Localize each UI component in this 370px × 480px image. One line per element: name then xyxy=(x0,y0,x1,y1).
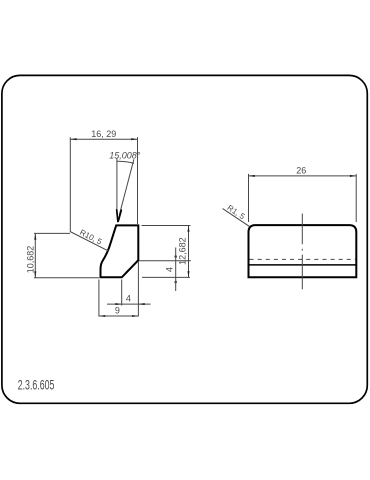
dim 16,29 left extension line xyxy=(69,137,71,231)
svg-text:R10, 5: R10, 5 xyxy=(78,228,104,247)
svg-text:16, 29: 16, 29 xyxy=(91,129,116,139)
dim 10,682 bottom extension line xyxy=(34,277,99,279)
angle dim 15,008 slanted leg xyxy=(119,159,134,215)
dim 12,682 arrows xyxy=(187,226,189,278)
dim 10,682 dimension line xyxy=(34,233,99,277)
svg-text:26: 26 xyxy=(296,166,306,176)
svg-text:4: 4 xyxy=(126,293,131,303)
dim 12,682 dimension line xyxy=(142,226,191,278)
dim 10,682 top extension line xyxy=(34,232,70,234)
radius leader R10,5 xyxy=(70,232,109,252)
dim 16,29 arrows xyxy=(70,138,137,140)
angle dim arc xyxy=(117,161,134,163)
dim 16,29 dimension line xyxy=(70,137,137,231)
right view: hidden dashed line xyxy=(250,258,356,260)
dim 26 arrows xyxy=(249,175,357,177)
dim 16,29 right extension line xyxy=(137,137,139,224)
dim 9 dimension line xyxy=(99,315,138,317)
dim 4 right dimension line xyxy=(139,248,191,292)
svg-text:9: 9 xyxy=(115,306,120,316)
svg-text:2.3.6.605: 2.3.6.605 xyxy=(18,377,55,393)
radius leader R1,5 xyxy=(223,209,250,227)
dim 26 dimension line xyxy=(249,174,357,222)
right view: vertical center line xyxy=(301,214,303,290)
dim 12,682 bottom extension line xyxy=(142,276,190,278)
svg-text:10,682: 10,682 xyxy=(25,246,35,274)
dim 4 right top extension line xyxy=(139,260,191,262)
svg-text:R1, 5: R1, 5 xyxy=(226,203,247,221)
svg-text:15,008°: 15,008° xyxy=(109,151,141,161)
dim 26 right extension line xyxy=(355,174,357,222)
frame border xyxy=(2,75,367,403)
dim 4 right dot terminators xyxy=(174,255,177,258)
dim 4 bottom arrows xyxy=(115,303,144,305)
dim 9 arrows xyxy=(99,315,138,317)
angle dim 15,008 vertical leg xyxy=(116,159,118,215)
dim 10,682 arrows xyxy=(34,233,36,277)
ext line right shared xyxy=(137,262,139,317)
svg-text:4: 4 xyxy=(165,267,175,272)
bottom extension lines xyxy=(99,262,151,317)
angle dim arrow xyxy=(117,210,122,222)
left view: part profile outline xyxy=(101,225,139,277)
ext line left of bottom 4 xyxy=(121,280,123,306)
right view: bottom strip line xyxy=(249,264,357,266)
dim 4 bottom dimension line xyxy=(107,303,151,305)
ext line left of 9 xyxy=(98,280,100,317)
dim 26 left extension line xyxy=(248,174,250,222)
dim 12,682 top extension line xyxy=(142,225,191,227)
right view: part outline xyxy=(249,225,357,277)
